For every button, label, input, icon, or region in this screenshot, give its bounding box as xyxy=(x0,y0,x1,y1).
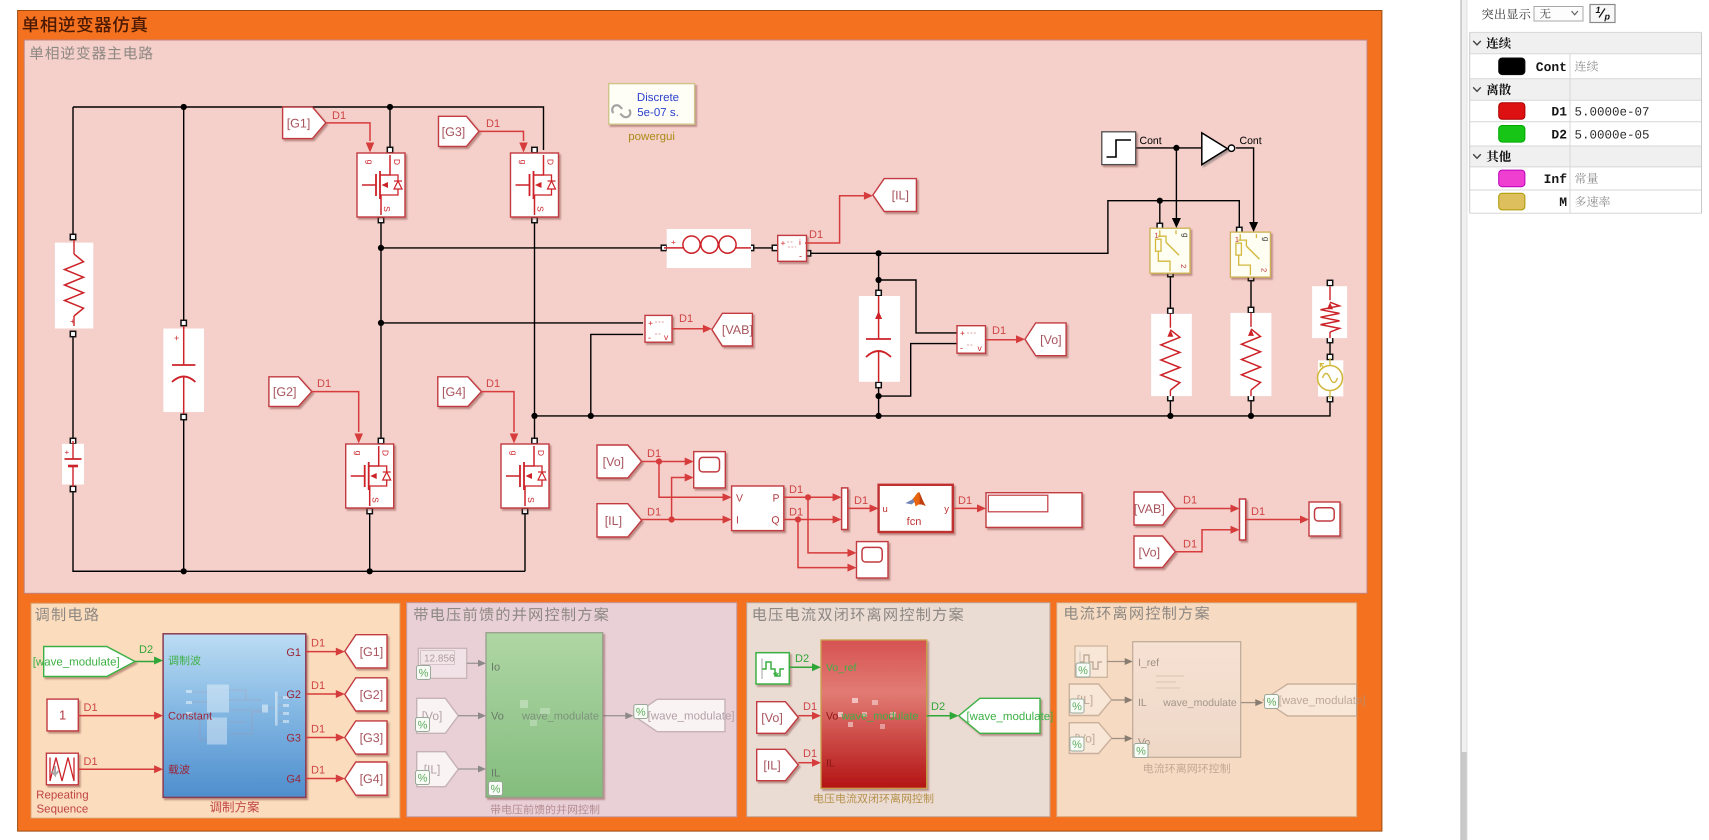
svg-text:%: % xyxy=(1072,739,1082,751)
svg-text:p: p xyxy=(1604,12,1611,22)
wire: Vo to scope and PQ xyxy=(642,448,732,501)
wire: capacitor bottom branch xyxy=(878,385,880,416)
inductor L1 xyxy=(664,229,751,268)
svg-text:S: S xyxy=(371,497,381,503)
svg-text:+: + xyxy=(174,333,179,343)
port squares xyxy=(70,147,1332,513)
wire: P output xyxy=(784,484,857,557)
wire: node A to VAB + xyxy=(381,322,643,324)
svg-text:%: % xyxy=(418,772,428,784)
svg-text:D1: D1 xyxy=(486,378,500,390)
svg-text:D1: D1 xyxy=(311,765,325,777)
svg-text:powergui: powergui xyxy=(628,131,675,143)
subsystem port labels xyxy=(168,647,301,786)
svg-text:[IL]: [IL] xyxy=(763,759,780,773)
svg-text:Discrete: Discrete xyxy=(637,92,679,104)
powergui block xyxy=(609,84,695,125)
svg-text:D2: D2 xyxy=(795,653,809,665)
wire: [G4] output xyxy=(306,765,345,783)
MOSFET Q1 xyxy=(357,153,405,217)
resistor R3 xyxy=(1312,286,1347,338)
svg-text:Cont: Cont xyxy=(1536,60,1567,75)
subsystem 电压电流双闭环离网控制 (red) xyxy=(821,640,927,788)
ideal switch SW2 xyxy=(1230,232,1270,277)
wires p2 (faded) xyxy=(458,660,633,773)
area 带电压前馈的并网控制方案 (panel 2) xyxy=(407,603,737,817)
from tag [wave_modulate] (green) xyxy=(33,647,135,677)
svg-text:g: g xyxy=(365,160,375,165)
wire: load bottom bus xyxy=(535,399,1331,416)
from tag [Vo] (bottom right) xyxy=(1134,536,1175,568)
svg-text:Inf: Inf xyxy=(1544,172,1568,187)
svg-text:%: % xyxy=(418,719,428,731)
svg-text:Cont: Cont xyxy=(1140,135,1162,147)
wire: G4 gate signal xyxy=(481,378,518,444)
svg-text:D1: D1 xyxy=(958,495,972,507)
area 调制电路 (panel 1) xyxy=(31,603,400,818)
label Repeating Sequence xyxy=(36,790,88,816)
wire: repeating sequence to subsystem xyxy=(78,756,163,773)
svg-text:%: % xyxy=(419,667,429,679)
MATLAB function block fcn xyxy=(879,485,953,532)
svg-text:y: y xyxy=(944,504,949,515)
svg-text:-: - xyxy=(799,251,802,261)
commented goto tag [wave_modulate] (p4) xyxy=(1263,684,1365,716)
wire: G3 gate signal xyxy=(479,118,528,153)
svg-text:D1: D1 xyxy=(679,313,693,325)
wires p4 (faded) xyxy=(1107,658,1263,742)
wire: Q output xyxy=(784,507,857,572)
svg-text:%: % xyxy=(1267,696,1277,708)
wire: NOT output to switch2 gate xyxy=(1236,148,1258,232)
MOSFET Q2 xyxy=(346,444,394,508)
svg-text:%: % xyxy=(491,783,501,795)
wire: R3 to AC source xyxy=(1329,340,1331,358)
svg-text:G4: G4 xyxy=(286,774,301,786)
resistor R_in (left) xyxy=(55,240,93,329)
svg-text:1: 1 xyxy=(1596,5,1601,15)
svg-text:D1: D1 xyxy=(1183,495,1197,507)
wire: fcn to display xyxy=(953,495,986,512)
svg-text:D1: D1 xyxy=(789,484,803,496)
svg-text:G2: G2 xyxy=(286,689,301,701)
svg-text:D: D xyxy=(536,450,546,456)
voltage measurement VM1 (VAB) xyxy=(645,315,672,342)
svg-text:D1: D1 xyxy=(803,701,817,713)
commented goto tag [wave_modulate] (p2) xyxy=(633,699,734,731)
label 电流环离网环控制 xyxy=(1144,763,1230,773)
svg-text:IL: IL xyxy=(826,758,835,770)
area 单相逆变器仿真 (orange outer area) xyxy=(18,11,1382,832)
canvas/panel splitter xyxy=(1461,0,1468,840)
svg-text:D1: D1 xyxy=(1183,539,1197,551)
svg-text:[G1]: [G1] xyxy=(360,645,384,659)
svg-text:1: 1 xyxy=(1155,231,1159,240)
svg-text:D1: D1 xyxy=(992,325,1006,337)
svg-text:D1: D1 xyxy=(647,507,661,519)
svg-text:D1: D1 xyxy=(803,748,817,760)
wire: IL signal from sensor xyxy=(805,192,873,243)
svg-text:D1: D1 xyxy=(486,118,500,130)
subsystem 调制方案 (blue) xyxy=(163,634,306,798)
svg-text:[G3]: [G3] xyxy=(360,731,384,745)
svg-text:D1: D1 xyxy=(1551,105,1567,120)
svg-text:[Vo]: [Vo] xyxy=(761,711,783,725)
power PQ block xyxy=(732,486,784,531)
svg-text:D: D xyxy=(381,450,391,456)
DC voltage source E1 xyxy=(163,326,204,414)
svg-text:g: g xyxy=(509,451,519,456)
svg-text:%: % xyxy=(1078,665,1088,677)
MOSFET Q3 xyxy=(511,153,559,217)
svg-text:+: + xyxy=(781,238,786,248)
svg-text:S: S xyxy=(526,497,536,503)
svg-text:5.0000e-07: 5.0000e-07 xyxy=(1575,106,1650,120)
commented subsystem 电流环离网环控制 xyxy=(1133,642,1241,758)
svg-text:D2: D2 xyxy=(931,701,945,713)
svg-text:-: - xyxy=(960,343,963,353)
svg-text:Q: Q xyxy=(771,515,779,527)
svg-text:D: D xyxy=(392,159,402,165)
wire: mux to fcn xyxy=(848,495,879,512)
goto tag [G3] xyxy=(345,721,387,754)
wire: G2 gate signal xyxy=(312,378,363,444)
svg-text:g: g xyxy=(1261,237,1270,241)
svg-text:[wave_modulate]: [wave_modulate] xyxy=(648,711,735,723)
ideal switch SW1 xyxy=(1150,228,1190,273)
label powergui xyxy=(628,131,675,143)
goto tag [G2] xyxy=(345,678,387,711)
label Cont (NOT) xyxy=(1240,135,1262,147)
svg-text:[VAB]: [VAB] xyxy=(1134,502,1165,516)
wire: wave_modulate to 调制波 xyxy=(135,644,163,665)
goto tag [G1] xyxy=(345,635,387,668)
svg-text:[wave_modulate]: [wave_modulate] xyxy=(966,711,1053,723)
goto tag [Vo] xyxy=(1025,323,1066,356)
mux Mux2 xyxy=(1240,499,1246,540)
wire: IL to scope and PQ xyxy=(642,474,732,524)
commented from tag [IL] (p4) xyxy=(1069,684,1111,716)
svg-text:IL: IL xyxy=(491,768,500,780)
from tag [G2] xyxy=(269,377,312,407)
wire: VAB - branch xyxy=(591,334,643,416)
svg-text:IL: IL xyxy=(1138,697,1147,709)
wire: capacitor top branch xyxy=(878,253,880,293)
svg-text:Constant: Constant xyxy=(168,711,212,723)
scope Scope2 xyxy=(857,542,889,578)
area 单相逆变器主电路 (pink main circuit area) xyxy=(24,40,1367,593)
mux Mux1 xyxy=(842,488,848,530)
wire: Vo_ref xyxy=(789,653,821,671)
svg-text:[G2]: [G2] xyxy=(360,688,384,702)
label 突出显示 xyxy=(1482,8,1530,19)
wire: constant to subsystem xyxy=(78,702,163,720)
svg-text:g: g xyxy=(1181,233,1190,237)
svg-text:i: i xyxy=(799,237,801,247)
from tag [VAB] (bottom right) xyxy=(1134,492,1176,525)
svg-text:I: I xyxy=(736,515,739,527)
voltage measurement VM2 (Vo) xyxy=(957,326,986,354)
wire: R1 to bus xyxy=(1169,398,1171,416)
wire: node A to inductor xyxy=(381,247,664,249)
svg-text:P: P xyxy=(772,493,779,505)
svg-text:Cont: Cont xyxy=(1240,135,1262,147)
wire: [G2] output xyxy=(306,680,345,698)
wire: switch2 to R2 xyxy=(1250,278,1252,310)
wire: switch1 to R1 xyxy=(1169,274,1171,311)
NOT gate xyxy=(1202,133,1235,165)
svg-text:D1: D1 xyxy=(311,680,325,692)
svg-text:fcn: fcn xyxy=(907,516,922,528)
svg-text:[VAB]: [VAB] xyxy=(722,323,753,337)
svg-text:D1: D1 xyxy=(317,378,331,390)
label 带电压前馈的并网控制 xyxy=(491,804,600,814)
right panel background xyxy=(1468,0,1709,840)
svg-text:Vo: Vo xyxy=(491,711,504,723)
label 调制方案 xyxy=(210,801,259,813)
wire: G1 gate signal xyxy=(326,110,374,153)
svg-text:S: S xyxy=(382,206,392,212)
svg-text:[G4]: [G4] xyxy=(360,772,384,786)
commented from tag [IL] (p2) xyxy=(417,752,459,787)
goto tag [VAB] xyxy=(712,313,753,346)
from tag [G3] xyxy=(439,116,480,146)
wire: node A vertical (M1 source to M3 drain) xyxy=(380,219,382,443)
goto tag [IL] xyxy=(873,179,917,212)
current measurement CM1 xyxy=(778,235,807,261)
wire: node B vertical (M2 source to M4 drain) xyxy=(534,219,536,443)
from tag [IL] (p3) xyxy=(757,749,799,780)
svg-text:G1: G1 xyxy=(286,647,301,659)
wire: bottom negative bus xyxy=(73,514,525,571)
svg-text:D1: D1 xyxy=(311,638,325,650)
svg-text:g: g xyxy=(519,160,529,165)
svg-text:wave_modulate: wave_modulate xyxy=(840,711,918,723)
svg-text:1: 1 xyxy=(59,708,66,723)
svg-text:+: + xyxy=(70,317,75,326)
svg-text:+: + xyxy=(65,448,70,457)
svg-text:Repeating: Repeating xyxy=(36,790,88,802)
wire: IL (p3) xyxy=(798,748,821,767)
wire: DC source column xyxy=(183,107,185,571)
svg-text:Vo: Vo xyxy=(826,711,838,723)
svg-text:wave_modulate: wave_modulate xyxy=(1162,697,1237,709)
label 电压电流双闭环离网控制 xyxy=(814,793,933,803)
wire: [G3] output xyxy=(306,724,345,742)
wire: MOSFET1 drain stub xyxy=(389,107,391,152)
wire: inductor to current sensor xyxy=(754,247,775,249)
svg-text:%: % xyxy=(1136,745,1146,757)
svg-text:[G3]: [G3] xyxy=(442,125,466,139)
legend table xyxy=(1470,32,1702,213)
svg-text:[G1]: [G1] xyxy=(287,116,311,130)
svg-text:+: + xyxy=(648,318,653,328)
svg-text:D1: D1 xyxy=(84,756,98,768)
capacitor C1 xyxy=(859,296,900,382)
svg-text:D1: D1 xyxy=(647,448,661,460)
wire: VAB signal xyxy=(672,313,712,333)
svg-text:%: % xyxy=(636,706,646,718)
svg-text:I_ref: I_ref xyxy=(1138,657,1159,669)
svg-text:[wave_modulate]: [wave_modulate] xyxy=(33,657,120,669)
svg-text:2: 2 xyxy=(1179,264,1188,268)
svg-text:+: + xyxy=(671,238,676,247)
wire: Vo (p3) xyxy=(798,701,821,720)
svg-text:5e-07 s.: 5e-07 s. xyxy=(637,107,679,119)
commented signal builder (p4) xyxy=(1075,646,1107,677)
step block xyxy=(1102,132,1136,165)
svg-text:D1: D1 xyxy=(854,495,868,507)
svg-text:D1: D1 xyxy=(1251,506,1265,518)
area 电压电流双闭环离网控制方案 (panel 3) xyxy=(747,603,1050,817)
svg-text:[G2]: [G2] xyxy=(273,385,297,399)
svg-text:D1: D1 xyxy=(311,724,325,736)
from tag [Vo] (p3) xyxy=(757,702,799,734)
wire: R2 to bus xyxy=(1250,398,1252,416)
wire: top DC bus xyxy=(73,107,544,150)
wire: node C (sensor out to switches) xyxy=(808,201,1239,254)
area 电流环离网控制方案 (panel 4) xyxy=(1057,603,1357,817)
svg-text:D2: D2 xyxy=(1551,127,1567,142)
wire: Vo to mux2 xyxy=(1175,526,1239,552)
from tag [IL] (lower left) xyxy=(597,504,642,537)
svg-text:12.856: 12.856 xyxy=(424,654,455,665)
svg-text:5.0000e-05: 5.0000e-05 xyxy=(1575,128,1650,142)
commented from tag [Vo] (p2) xyxy=(417,698,459,733)
svg-text:g: g xyxy=(354,451,364,456)
svg-text:1: 1 xyxy=(1235,235,1239,244)
svg-text:Io: Io xyxy=(491,662,500,674)
wire: wave_modulate out (p3) xyxy=(927,701,959,720)
svg-text:[IL]: [IL] xyxy=(605,514,622,528)
wire: left source column xyxy=(73,107,184,571)
svg-text:V: V xyxy=(736,493,743,505)
svg-text:D2: D2 xyxy=(139,644,153,656)
scope Scope3 xyxy=(1309,502,1340,536)
constant block 1 xyxy=(47,699,78,731)
signal builder block (Vo_ref) xyxy=(756,653,789,684)
wire: [G1] output xyxy=(306,638,345,656)
svg-text:[Vo]: [Vo] xyxy=(1139,545,1161,559)
resistor R2 xyxy=(1230,313,1271,396)
wire: Vo measurement - branch xyxy=(879,344,957,397)
label Cont (step) xyxy=(1140,135,1162,147)
scope Scope1 xyxy=(694,452,726,488)
commented display block 12.856 xyxy=(418,648,466,678)
MOSFET Q4 xyxy=(501,444,549,508)
svg-text:G3: G3 xyxy=(286,733,301,745)
from tag [G1] xyxy=(283,107,326,139)
svg-text:2: 2 xyxy=(1259,268,1268,272)
svg-text:Sequence: Sequence xyxy=(37,804,89,816)
battery B1 (left) xyxy=(62,441,84,487)
AC voltage source G1 (grid) xyxy=(1318,358,1344,399)
wire: branch to Vo measurement + xyxy=(879,280,957,333)
svg-text:D1: D1 xyxy=(809,229,823,241)
svg-text:D1: D1 xyxy=(789,507,803,519)
wire: mux2 to scope3 xyxy=(1246,506,1309,524)
svg-text:D1: D1 xyxy=(332,110,346,122)
svg-text:[Vo]: [Vo] xyxy=(1040,333,1062,347)
svg-text:+: + xyxy=(960,328,965,338)
repeating sequence block xyxy=(46,753,78,785)
goto tag [wave_modulate] (p3 green) xyxy=(959,698,1054,733)
dropdown 无 xyxy=(1534,7,1583,22)
button 1/p xyxy=(1590,5,1615,23)
wire: VAB to mux2 xyxy=(1175,495,1239,513)
wire: step to NOT and switch1 gate xyxy=(1136,148,1201,228)
display block xyxy=(986,493,1082,528)
svg-text:%: % xyxy=(1072,701,1082,713)
svg-text:[wave_modulate]: [wave_modulate] xyxy=(1279,695,1366,707)
svg-text:D1: D1 xyxy=(84,702,98,714)
goto tag [G4] xyxy=(345,762,387,795)
svg-text:[Vo]: [Vo] xyxy=(603,455,625,469)
subsystem 带电压前馈的并网控制 (green) xyxy=(486,633,603,798)
svg-text:Vo_ref: Vo_ref xyxy=(826,662,856,674)
svg-text:S: S xyxy=(536,206,546,212)
resistor R1 xyxy=(1151,314,1192,396)
svg-text:-: - xyxy=(648,333,651,343)
from tag [Vo] (lower left) xyxy=(597,445,642,478)
from tag [G4] xyxy=(438,377,482,407)
wire: Vo signal xyxy=(986,325,1026,343)
svg-text:[IL]: [IL] xyxy=(892,189,909,203)
svg-text:u: u xyxy=(883,504,888,515)
svg-text:M: M xyxy=(1559,195,1567,210)
commented from tag [Vo] (p4) xyxy=(1069,723,1111,754)
svg-text:D: D xyxy=(546,159,556,165)
svg-text:[G4]: [G4] xyxy=(442,385,466,399)
